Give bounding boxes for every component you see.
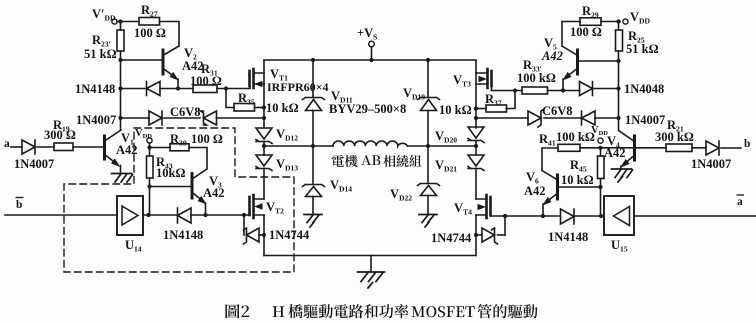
- inductor motor winding: [333, 141, 407, 146]
- wire R41 to VDD node: [580, 147, 633, 149]
- svg-text:A42: A42: [203, 186, 225, 200]
- svg-text:100 Ω: 100 Ω: [134, 26, 166, 40]
- wire V2 base: [122, 59, 161, 61]
- svg-text:1N4007: 1N4007: [76, 113, 116, 127]
- node VD11 motor junction: [311, 144, 315, 148]
- resistor R27 100ohm: [139, 18, 160, 26]
- ground (V1 emitter): [112, 174, 133, 183]
- node V'DD junction: [118, 19, 122, 23]
- svg-text:A42: A42: [116, 143, 138, 157]
- wire V5 base: [580, 60, 619, 62]
- wire V'DD to R27: [117, 21, 139, 23]
- node R35/source junction: [262, 105, 266, 109]
- svg-text:a: a: [4, 138, 10, 150]
- wire VT2 source to bottom rail: [263, 215, 265, 256]
- svg-text:300 kΩ: 300 kΩ: [655, 130, 694, 144]
- svg-text:A42: A42: [524, 184, 546, 198]
- svg-text:100 kΩ: 100 kΩ: [556, 130, 595, 144]
- terminal VDD (right driver): [598, 138, 603, 143]
- node R39/R43 junction: [147, 145, 151, 149]
- svg-text:100 Ω: 100 Ω: [190, 74, 222, 88]
- wire VDD node to R45: [600, 148, 602, 156]
- wire C6V8 to 1N4007: [544, 117, 581, 119]
- wire VT2 gate line: [144, 214, 178, 216]
- svg-text:A42: A42: [541, 49, 563, 63]
- MOSFET VT2: [250, 195, 265, 218]
- transistor V2 A42: [163, 46, 179, 89]
- wire V3 base: [150, 186, 191, 188]
- node b output wire: [721, 147, 741, 149]
- wire R33' to V5 emitter node: [548, 90, 580, 92]
- node VDD junction: [616, 19, 620, 23]
- wire rail to center ground: [370, 256, 372, 272]
- diode VD11 BYV29: [303, 98, 325, 111]
- node R31/R35 junction: [224, 86, 228, 90]
- node V2 emitter junction: [176, 86, 180, 90]
- wire R35 to source line: [255, 107, 265, 109]
- wire bus to 1N4007 line: [121, 117, 150, 119]
- wire VT1 drain to +Vs rail: [263, 60, 265, 84]
- zener VD21: [468, 155, 484, 171]
- wire R45 to V6 base node: [600, 179, 602, 217]
- diode 1N4148 (lower right): [561, 209, 575, 224]
- caption 图2 H桥驱动电路和功率MOSFET管的驱动: [225, 304, 249, 318]
- wire 1N4007 to C6V8: [164, 117, 200, 119]
- svg-text:C6V8: C6V8: [542, 104, 573, 118]
- wire right bus down: [618, 22, 620, 31]
- wire down to R35: [226, 89, 234, 108]
- wire VD20 to motor node: [475, 141, 477, 156]
- node V6 emitter junction: [541, 214, 545, 218]
- ground (V4 emitter): [612, 169, 633, 182]
- transistor V1 A42: [105, 130, 122, 172]
- wire down to 1N4744: [243, 215, 245, 235]
- terminal V'DD: [112, 19, 117, 24]
- resistor R25 51k: [616, 30, 623, 51]
- svg-text:1N4744: 1N4744: [269, 228, 310, 242]
- svg-text:51 kΩ: 51 kΩ: [84, 47, 117, 61]
- svg-text:1N4148: 1N4148: [548, 230, 588, 244]
- wire VD14 to ground: [312, 197, 314, 214]
- MOSFET VT3: [476, 69, 492, 91]
- node VT3 gate/R37 junction: [513, 88, 517, 92]
- wire C6V8 to source line: [217, 117, 265, 119]
- resistor R21 300k: [666, 144, 692, 152]
- svg-text:1N4048: 1N4048: [624, 82, 664, 96]
- node 1N4048 at bus: [616, 86, 620, 90]
- wire V6 collector riser to R41: [542, 148, 558, 171]
- svg-text:1N4007: 1N4007: [14, 157, 54, 171]
- svg-text:1N4007: 1N4007: [625, 113, 665, 127]
- node R41/R45/V4 junction: [598, 146, 602, 150]
- wire VT4 source to bottom rail: [475, 215, 477, 256]
- wire source line to C6V8 right: [476, 117, 528, 119]
- wire left bus R23' down to V1 collector: [120, 51, 122, 129]
- wire R27 to V2 collector riser: [160, 22, 180, 47]
- wire V6 base: [559, 186, 601, 188]
- wire right bus R25 to V4: [618, 51, 620, 130]
- node 1N4744 right junction: [503, 214, 507, 218]
- node motor line right: [474, 144, 478, 148]
- wire 1N4148 to V2 emitter node: [160, 88, 193, 90]
- wire R31 to VT1 gate: [217, 86, 250, 89]
- node R45 riser at gate line: [599, 214, 603, 218]
- zener VD14: [303, 185, 325, 197]
- wire bus to 1N4148: [121, 88, 147, 90]
- transistor V4 A42: [619, 131, 635, 169]
- resistor R39 100ohm: [170, 144, 189, 151]
- wire V4 base to R21: [636, 147, 666, 149]
- resistor R19 300ohm: [54, 143, 73, 151]
- transistor V3 A42: [192, 169, 207, 213]
- node V2 base junction: [118, 58, 122, 62]
- node 1N4007 line at bus: [118, 116, 122, 120]
- wire VD19 to motor line: [427, 111, 429, 147]
- svg-text:BYV29–500×8: BYV29–500×8: [329, 102, 406, 116]
- wire VD13 to VT2 drain: [263, 169, 265, 200]
- svg-text:1N4148: 1N4148: [163, 228, 203, 242]
- wire R19 to V1 base: [73, 146, 103, 148]
- wire VT3 gate line: [492, 90, 523, 92]
- wire rail to VT3 drain: [475, 60, 477, 128]
- diode 1N4048: [580, 82, 593, 96]
- resistor R23' 51k: [117, 30, 124, 51]
- node source/1N4744 junction: [262, 233, 266, 237]
- zener VD12: [256, 128, 272, 144]
- svg-text:IRFPR60×4: IRFPR60×4: [267, 80, 329, 94]
- node V3 base junction: [147, 184, 151, 188]
- wire motor line to VD14: [312, 146, 314, 184]
- node V3 emitter junction: [203, 213, 207, 217]
- node b_bar input: [5, 214, 117, 216]
- resistor R35 10k: [234, 104, 255, 112]
- node a (input a): [11, 146, 22, 148]
- zener VD13: [256, 155, 272, 171]
- node VD19 rail junction: [426, 58, 430, 62]
- wire 1N4148 to U15: [574, 215, 604, 217]
- node V6 base junction: [598, 185, 602, 189]
- svg-text:10kΩ: 10kΩ: [156, 166, 185, 180]
- svg-text:b: b: [16, 199, 22, 211]
- svg-text:a: a: [737, 196, 743, 208]
- node 1N4148 line at bus: [118, 86, 122, 90]
- resistor R43 10k: [147, 156, 154, 178]
- svg-text:100 Ω: 100 Ω: [191, 132, 223, 146]
- node C6V8 right source junction: [474, 116, 478, 120]
- resistor R45 10k: [598, 156, 605, 179]
- svg-text:100 Ω: 100 Ω: [570, 25, 602, 39]
- svg-text:1N4148: 1N4148: [75, 82, 115, 96]
- overbar a_bar: [737, 194, 745, 196]
- node R43 riser at gate line: [146, 213, 150, 217]
- wire V5 collector riser: [562, 22, 580, 47]
- MOSFET VT1 IRFPR60x4: [250, 69, 265, 88]
- ground (center rail): [358, 272, 385, 288]
- wire VD11 to motor line: [312, 111, 314, 147]
- node motor line left: [262, 144, 266, 148]
- overbar b_bar: [16, 197, 24, 199]
- wire VD22 to ground: [427, 196, 429, 214]
- resistor R29 100ohm: [580, 18, 601, 26]
- node a_bar output wire: [634, 215, 756, 217]
- wire R29 to VDD: [601, 21, 620, 23]
- svg-text:A42: A42: [604, 146, 626, 160]
- svg-text:51 kΩ: 51 kΩ: [626, 42, 659, 56]
- diode 1N4007 (right clamp): [582, 111, 596, 125]
- node source/1N4744 right junction: [474, 233, 478, 237]
- resistor R41 100k: [558, 144, 580, 151]
- svg-text:1N4744: 1N4744: [431, 231, 472, 245]
- terminal +Vs: [369, 41, 375, 47]
- node VD11 rail junction: [311, 58, 315, 62]
- bottom rail: [264, 255, 476, 257]
- node 1N4744 branch junction: [242, 213, 246, 217]
- wire VDD stub to R39 node: [149, 143, 151, 156]
- wire gate node down to R37: [507, 91, 516, 109]
- transistor V5 A42: [562, 46, 578, 90]
- optocoupler U14: [117, 196, 143, 235]
- diode 1N4148 (upper left): [147, 82, 161, 96]
- +Vs rail: [264, 59, 476, 61]
- wire left bus V'DD to R23': [120, 22, 122, 31]
- ground (VD14): [304, 215, 322, 228]
- zener 1N4744 (right): [476, 228, 498, 244]
- wire 1N4744 to gate riser: [498, 234, 506, 236]
- wire VD12 to motor line: [263, 142, 265, 156]
- ground (VD22): [419, 215, 437, 228]
- zener VD19: [418, 98, 440, 111]
- wire diode to R19: [37, 146, 54, 148]
- wire R43 to base node: [149, 178, 151, 215]
- wire 1N4007 to bus: [595, 117, 619, 119]
- node R37/source junction: [474, 106, 478, 110]
- optocoupler U15: [604, 196, 634, 235]
- svg-text:10 kΩ: 10 kΩ: [266, 101, 299, 115]
- svg-text:C6V8: C6V8: [170, 105, 201, 119]
- dashed driver-module box: [64, 128, 294, 272]
- svg-text:10 kΩ: 10 kΩ: [561, 173, 594, 187]
- wire +Vs stub: [371, 47, 373, 60]
- svg-text:300 Ω: 300 Ω: [44, 128, 76, 142]
- svg-text:1N4007: 1N4007: [691, 157, 731, 171]
- node V5 emitter junction: [561, 88, 565, 92]
- node 1N4007 at bus: [616, 116, 620, 120]
- wire VD21 to VT4 drain: [475, 169, 477, 200]
- wire to R39: [150, 147, 171, 149]
- node +Vs rail junction: [369, 58, 373, 62]
- resistor R33' 100k: [522, 87, 548, 94]
- terminal VDD (top right): [623, 19, 628, 24]
- zener VD20: [468, 127, 484, 143]
- wire rail to VD11: [312, 60, 314, 97]
- svg-text:b: b: [744, 138, 750, 150]
- zener C6V8 (left): [201, 111, 217, 125]
- resistor R37 10k: [486, 105, 507, 112]
- wire R21 to 1N4007: [692, 147, 706, 149]
- zener 1N4744 (left): [244, 228, 260, 244]
- node C6V8/source junction: [262, 116, 266, 120]
- wire 1N4744 to source line: [259, 234, 264, 236]
- wire 1N4048 to bus: [594, 88, 619, 90]
- terminal VDD (left driver): [147, 138, 152, 143]
- resistor R31 100ohm: [193, 85, 217, 93]
- diode 1N4007 (left clamp): [149, 111, 162, 125]
- wire down to 1N4744 right: [504, 216, 506, 235]
- zener VD22: [418, 184, 440, 196]
- wire motor line to VD22: [427, 146, 429, 183]
- wire R37 to source line: [476, 108, 486, 110]
- wire 1N4148 to VT2 gate: [191, 213, 250, 215]
- diode 1N4007 (output b): [706, 141, 719, 155]
- diode 1N4148 (lower left): [178, 208, 192, 223]
- diode 1N4007 (input a): [22, 140, 35, 154]
- wire motor line: [264, 145, 476, 147]
- transistor V6 A42: [542, 171, 558, 215]
- wire rail to VD19: [427, 60, 429, 97]
- MOSFET VT4: [476, 195, 491, 218]
- node VD19 motor junction: [426, 144, 430, 148]
- svg-text:10 kΩ: 10 kΩ: [439, 103, 472, 117]
- node V5 base junction: [616, 59, 620, 63]
- wire VT1 source down: [263, 84, 265, 128]
- wire R39 to V3 collector riser: [189, 148, 207, 169]
- zener C6V8 (right): [528, 109, 544, 127]
- wire VT4 gate line: [491, 215, 561, 217]
- label motor winding 电机 AB 相绕组: [332, 155, 358, 167]
- svg-text:100 kΩ: 100 kΩ: [517, 71, 556, 85]
